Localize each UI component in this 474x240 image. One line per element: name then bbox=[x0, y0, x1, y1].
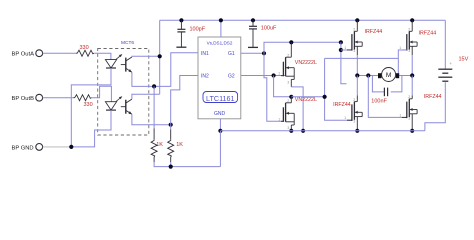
node motor right junction bbox=[410, 73, 414, 77]
transistor Q4 IRFZ44 (bottom left) bbox=[356, 96, 358, 102]
lead R4 top bbox=[170, 130, 172, 140]
svg-text:1: 1 bbox=[278, 117, 280, 121]
capacitor C2 100uF bbox=[252, 20, 254, 26]
capacitor C3 100nF (motor snubber) bbox=[383, 88, 385, 97]
svg-text:2: 2 bbox=[353, 28, 355, 32]
svg-text:MCT6: MCT6 bbox=[121, 40, 134, 46]
resistor R3 1K (IN1 pulldown) bbox=[151, 139, 157, 157]
node Q8 gate tap on motor-left bbox=[366, 73, 370, 77]
wire IN2 staircase to chip bbox=[171, 76, 198, 125]
wire Q5 source to ground rail bbox=[291, 87, 303, 131]
wire R2 to LED2 anode bbox=[92, 86, 112, 101]
svg-text:IN1: IN1 bbox=[201, 51, 209, 57]
wire BP OutA to R1 bbox=[43, 52, 76, 54]
connector BP OutA bbox=[36, 50, 43, 57]
lead R3 bottom bbox=[153, 157, 155, 162]
wire motor-left to Q8 gate bbox=[368, 76, 407, 118]
svg-text:330: 330 bbox=[80, 45, 89, 51]
motor M1 right terminal block bbox=[396, 73, 400, 78]
node Q4 source on ground rail bbox=[355, 129, 359, 133]
wire bus to battery bbox=[444, 20, 446, 69]
node G2 branch bbox=[272, 73, 276, 77]
ground for C2 bbox=[252, 29, 254, 48]
optocoupler U2 MCT6 dashed box bbox=[98, 49, 149, 136]
motor M1 left terminal block bbox=[378, 73, 382, 78]
wire U1 Vs pin to bus bbox=[220, 20, 222, 37]
svg-text:330: 330 bbox=[84, 102, 93, 108]
node C1 bus tap bbox=[179, 18, 183, 22]
node Q5 source on ground rail bbox=[301, 129, 305, 133]
label U1 device name box bbox=[203, 92, 238, 103]
resistor R2 330 (BP OutB) bbox=[74, 95, 92, 101]
svg-text:2: 2 bbox=[287, 53, 289, 57]
wire Q1 emitter to IN1 bbox=[132, 53, 198, 87]
svg-text:Vs,DS1,DS2: Vs,DS1,DS2 bbox=[207, 41, 233, 46]
svg-text:2: 2 bbox=[353, 98, 355, 102]
chip U1 LTC1161 body bbox=[198, 37, 241, 119]
wire G2 branch down to mid node bbox=[274, 76, 292, 97]
wire R4 to lower rail bbox=[170, 162, 172, 167]
phototransistor Q2 (opto channel B) bbox=[125, 100, 127, 114]
node BP GND junction bbox=[69, 145, 73, 149]
svg-text:IRFZ44: IRFZ44 bbox=[365, 29, 383, 35]
wire motor-right cross feed bbox=[325, 57, 399, 59]
node lower rail / R4 junction bbox=[169, 165, 173, 169]
transistor Q7 VN2222L (lower) bbox=[290, 97, 292, 103]
node Q8 source on ground rail bbox=[410, 129, 414, 133]
connector BP OutB bbox=[36, 94, 43, 101]
svg-text:3: 3 bbox=[353, 49, 355, 53]
svg-text:1K: 1K bbox=[156, 142, 163, 148]
wire R1 to LED1 anode bbox=[94, 53, 111, 59]
svg-text:LTC1161: LTC1161 bbox=[206, 94, 235, 103]
node Q7 source on ground rail bbox=[289, 129, 293, 133]
svg-text:1: 1 bbox=[344, 46, 346, 50]
svg-text:3: 3 bbox=[408, 117, 410, 121]
svg-text:3: 3 bbox=[353, 119, 355, 123]
svg-text:IN2: IN2 bbox=[201, 74, 209, 80]
wire Vs drop left bbox=[159, 20, 161, 94]
wire G1 vertical bbox=[341, 42, 347, 84]
node IN1/R3 junction bbox=[152, 84, 156, 88]
battery V1 15V bbox=[438, 68, 452, 70]
wire motor-right down to Q8 drain bbox=[411, 76, 413, 96]
wire LED1 cathode return to BP GND bbox=[71, 68, 111, 147]
wire BP OutB to R2 bbox=[43, 97, 74, 99]
svg-text:M: M bbox=[386, 72, 392, 79]
wire G2 from chip to Q5 gate bbox=[241, 75, 286, 77]
node U1 Vs bus tap bbox=[219, 18, 223, 22]
wire battery return bbox=[425, 82, 445, 131]
transistor Q5 VN2222L (upper) bbox=[290, 42, 292, 57]
node Q3 drain bus tap bbox=[355, 18, 359, 22]
wire G1 up-branch bbox=[264, 42, 341, 53]
svg-text:1: 1 bbox=[278, 72, 280, 76]
wire R4 top lead bbox=[170, 125, 172, 130]
wire motor-left down to Q4 drain bbox=[356, 76, 358, 96]
svg-text:15V: 15V bbox=[459, 56, 469, 62]
svg-text:2: 2 bbox=[408, 95, 410, 99]
wire motor left snubber drop bbox=[372, 76, 384, 92]
node G1 corner bbox=[339, 40, 343, 44]
svg-text:+: + bbox=[449, 61, 452, 66]
node Q5 source / Q7 drain bbox=[289, 95, 293, 99]
svg-text:100nF: 100nF bbox=[371, 99, 387, 105]
svg-text:2: 2 bbox=[287, 99, 289, 103]
node IN2/R4 junction bbox=[169, 123, 173, 127]
wire R3 to lower rail bbox=[154, 162, 220, 167]
svg-text:1: 1 bbox=[399, 113, 401, 117]
wire Q3 source to motor left bbox=[357, 55, 378, 76]
wire G1 branch to Q7 gate bbox=[264, 53, 283, 121]
wire Q2 emitter to IN2 bbox=[132, 114, 171, 124]
svg-text:G2: G2 bbox=[228, 74, 235, 80]
wire ground rail bbox=[220, 130, 425, 132]
wire U1 GND pin down bbox=[219, 119, 221, 131]
wire Q6 source to motor right bbox=[399, 55, 412, 76]
connector BP GND bbox=[36, 144, 43, 151]
LED D2 (opto channel B) bbox=[105, 102, 116, 110]
svg-text:BP OutB: BP OutB bbox=[12, 96, 35, 102]
transistor Q6 IRFZ44 (top right) bbox=[411, 20, 413, 31]
wire U1 GND to lower rail bbox=[219, 131, 221, 167]
svg-text:3: 3 bbox=[287, 126, 289, 130]
svg-text:100uF: 100uF bbox=[261, 26, 277, 32]
svg-text:IRFZ44: IRFZ44 bbox=[424, 94, 442, 100]
svg-text:100pF: 100pF bbox=[190, 27, 206, 33]
node G1 branch bbox=[262, 51, 266, 55]
svg-text:G1: G1 bbox=[228, 51, 235, 57]
LED D1 (opto channel A) bbox=[105, 60, 116, 68]
wire Q1 collector to Vs drop bbox=[132, 55, 160, 58]
svg-text:1: 1 bbox=[344, 116, 346, 120]
wire top Vs bus bbox=[160, 19, 446, 21]
svg-text:BP OutA: BP OutA bbox=[12, 51, 35, 57]
node C2 bus tap bbox=[251, 18, 255, 22]
svg-text:VN2222L: VN2222L bbox=[295, 60, 317, 66]
phototransistor Q1 (opto channel A) bbox=[125, 58, 127, 72]
node Q5 drain tap on G1 bbox=[289, 40, 293, 44]
svg-text:1K: 1K bbox=[176, 142, 183, 148]
wire Q6 gate stub to cross feed bbox=[398, 50, 407, 58]
node G1 / Q3 gate junction bbox=[339, 48, 343, 52]
wire Q3 gate lead join bbox=[341, 49, 352, 51]
svg-text:IRFZ44: IRFZ44 bbox=[333, 102, 351, 108]
svg-text:VN2222L: VN2222L bbox=[295, 97, 317, 103]
svg-text:BP GND: BP GND bbox=[12, 146, 34, 152]
wire BP GND stub bbox=[43, 146, 72, 148]
resistor R1 330 (BP OutA) bbox=[76, 50, 94, 56]
lead R4 bottom bbox=[170, 157, 172, 162]
wire Q2 collector to Vs drop bbox=[132, 94, 160, 99]
svg-text:3: 3 bbox=[287, 81, 289, 85]
wire mid node to cross column bbox=[291, 96, 324, 98]
motor M1 body bbox=[382, 68, 396, 82]
wire G1 from chip bbox=[241, 52, 264, 54]
svg-text:2: 2 bbox=[408, 28, 410, 32]
node cross/mid junction bbox=[323, 95, 327, 99]
node U1 GND junction bbox=[218, 129, 222, 133]
wire LED2 cathode return to BP GND bbox=[71, 110, 111, 147]
svg-text:1: 1 bbox=[399, 46, 401, 50]
svg-text:IRFZ44: IRFZ44 bbox=[419, 31, 437, 37]
node Q6 drain bus tap bbox=[410, 18, 414, 22]
ground for C1 bbox=[180, 32, 182, 47]
wire IN1 node to R3 bbox=[153, 86, 155, 128]
wire cross column bbox=[325, 58, 352, 120]
svg-text:3: 3 bbox=[408, 49, 410, 53]
svg-text:GND: GND bbox=[214, 111, 226, 117]
node motor left junction bbox=[355, 73, 359, 77]
wire motor right snubber drop bbox=[391, 76, 402, 92]
transistor Q8 IRFZ44 (bottom right) bbox=[411, 96, 413, 99]
capacitor C1 100pF bbox=[180, 20, 182, 29]
lead R3 top bbox=[153, 129, 155, 140]
node Q1 collector junction bbox=[158, 54, 162, 58]
transistor Q3 IRFZ44 (top left) bbox=[356, 20, 358, 31]
resistor R4 1K (IN2 pulldown) bbox=[168, 139, 174, 157]
wire cross feed to motor right terminal bbox=[397, 58, 399, 73]
